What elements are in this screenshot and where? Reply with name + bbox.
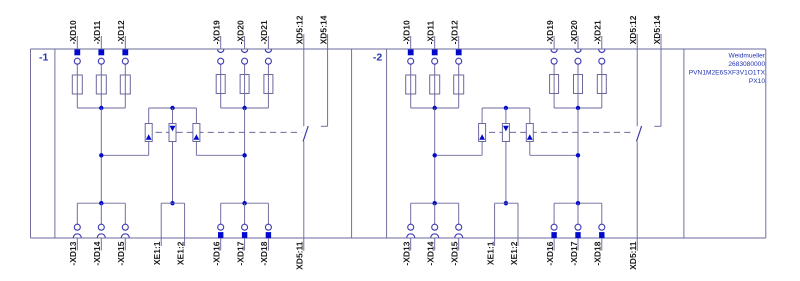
svg-text:XE1:2: XE1:2 [509, 241, 519, 265]
svg-text:-XD20: -XD20 [235, 20, 245, 44]
svg-text:-XD16: -XD16 [212, 241, 222, 265]
svg-text:XD5:14: XD5:14 [318, 15, 328, 44]
svg-text:-XD10: -XD10 [402, 20, 412, 44]
svg-text:XD5:11: XD5:11 [628, 241, 638, 270]
svg-text:Weidmueller: Weidmueller [728, 53, 765, 60]
svg-text:PX10: PX10 [749, 78, 765, 85]
svg-text:XD5:12: XD5:12 [295, 15, 305, 44]
svg-text:-1: -1 [39, 52, 48, 64]
svg-text:-XD21: -XD21 [593, 20, 603, 44]
svg-text:XE1:1: XE1:1 [152, 241, 162, 265]
svg-text:XD5:14: XD5:14 [652, 15, 662, 44]
svg-text:-XD15: -XD15 [450, 241, 460, 265]
svg-text:-XD14: -XD14 [92, 241, 102, 265]
svg-text:-XD17: -XD17 [235, 241, 245, 265]
svg-text:-XD13: -XD13 [68, 241, 78, 265]
svg-text:-XD12: -XD12 [116, 20, 126, 44]
svg-text:-XD18: -XD18 [259, 241, 269, 265]
svg-text:-XD21: -XD21 [259, 20, 269, 44]
svg-text:-XD19: -XD19 [545, 20, 555, 44]
svg-text:XE1:1: XE1:1 [485, 241, 495, 265]
svg-text:-XD19: -XD19 [212, 20, 222, 44]
svg-text:XE1:2: XE1:2 [175, 241, 185, 265]
svg-text:-2: -2 [373, 52, 382, 64]
svg-text:-XD11: -XD11 [92, 21, 102, 45]
svg-text:-XD18: -XD18 [593, 241, 603, 265]
svg-text:-XD10: -XD10 [68, 20, 78, 44]
svg-text:PVN1M2E6SXF3V1O1TX: PVN1M2E6SXF3V1O1TX [689, 69, 766, 76]
svg-text:XD5:11: XD5:11 [295, 241, 305, 270]
svg-text:-XD16: -XD16 [545, 241, 555, 265]
svg-text:-XD20: -XD20 [569, 20, 579, 44]
svg-text:XD5:12: XD5:12 [628, 15, 638, 44]
svg-text:-XD17: -XD17 [569, 241, 579, 265]
svg-text:-XD12: -XD12 [450, 20, 460, 44]
svg-text:-XD14: -XD14 [426, 241, 436, 265]
svg-text:-XD15: -XD15 [116, 241, 126, 265]
svg-text:2683080000: 2683080000 [728, 61, 765, 68]
svg-text:-XD11: -XD11 [426, 21, 436, 45]
svg-text:-XD13: -XD13 [402, 241, 412, 265]
